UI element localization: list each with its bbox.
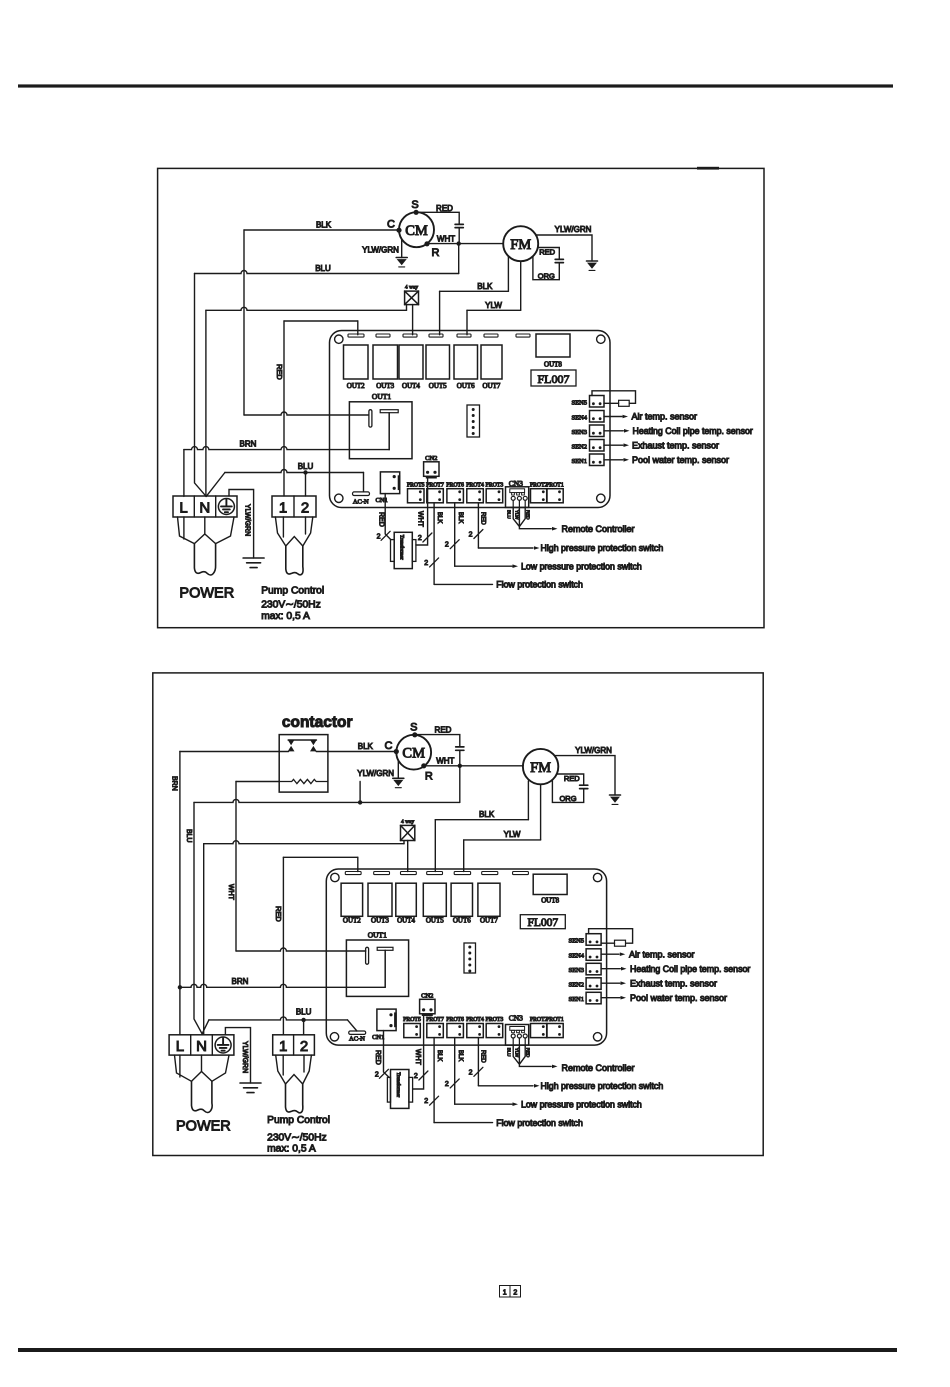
SEN5 jumper loop with resistor [592,391,636,404]
ground (CM) [396,257,407,259]
svg-text:Heating Coil pipe temp. sensor: Heating Coil pipe temp. sensor [630,964,750,974]
svg-text:contactor: contactor [282,714,353,731]
svg-text:BLK: BLK [436,512,442,523]
PCB FL007 board outline [330,331,611,508]
svg-text:PROT6: PROT6 [446,482,464,488]
svg-text:POWER: POWER [179,586,234,602]
board 2 top slot 3 [401,872,417,875]
connector CN2 [424,462,439,477]
svg-text:C: C [385,740,393,752]
svg-text:POWER: POWER [176,1119,231,1135]
relay OUT5 (diagram 2) [423,883,446,916]
contactor contact triangles [288,740,317,752]
wire N into cable 2 [201,1055,203,1071]
svg-text:BRN: BRN [170,776,177,791]
motor CM (compressor, diagram 2) [396,735,431,770]
connector SEN5 (2) [586,934,601,946]
relay OUT3 (diagram 2) [368,883,392,916]
svg-text:YLW: YLW [514,510,519,520]
wire BLK FM2 to OUT5 [527,781,529,820]
wire ORG FM2 [552,780,583,803]
wire YLW/GRN FM2 ground [555,756,616,795]
wire PROT6 low pressure switch 2 [454,1038,456,1105]
svg-text:BLK: BLK [358,742,374,751]
svg-text:PROT5: PROT5 [403,1017,421,1023]
wire SEN4 air temp sensor [604,416,622,418]
svg-text:CM: CM [405,223,428,239]
earth symbol in terminal 2 [215,1037,231,1053]
terminal block L N E 2 [169,1035,234,1055]
svg-text:YLW: YLW [504,830,521,839]
svg-text:RED: RED [479,1050,485,1063]
svg-text:PROT7: PROT7 [426,1017,444,1023]
svg-text:OUT5: OUT5 [429,382,447,390]
svg-text:YLW/GRN: YLW/GRN [357,769,394,778]
svg-text:RED: RED [525,510,530,520]
power cable funnel [178,517,235,544]
arrow to Remote Controller 2 [552,1065,558,1069]
svg-text:YLW: YLW [514,1048,519,1058]
board 2 top slot 1 [345,872,361,875]
PCB FL007 board outline 2 [326,869,606,1045]
connector SEN1 [590,454,605,466]
svg-text:230V∼/50Hz: 230V∼/50Hz [267,1133,327,1144]
svg-text:SEN1: SEN1 [571,458,587,465]
wire PROT7 flow switch 2 [433,1038,435,1123]
svg-text:R: R [425,770,433,782]
board 2 top slot 2 [374,872,390,875]
wire WHT from R to FM [427,243,503,245]
pump cable 2 [286,1084,303,1113]
svg-text:WHT: WHT [414,1049,421,1066]
wire 2 into cable [305,517,307,534]
svg-text:RED: RED [274,906,283,922]
svg-text:2: 2 [445,542,449,549]
svg-text:BLU: BLU [185,829,192,843]
wire RED CN1 to transformer 2 [384,1031,390,1078]
svg-text:OUT6: OUT6 [457,382,475,390]
svg-text:PROT3: PROT3 [486,1017,504,1023]
svg-text:YLW/GRN: YLW/GRN [241,1041,248,1073]
terminal R of CM [424,241,429,246]
svg-text:BLU: BLU [507,1048,512,1057]
relay OUT2 (diagram 2) [341,883,363,916]
wire 1 into cable [282,517,284,537]
svg-text:FL007: FL007 [527,917,558,929]
svg-text:R: R [432,247,440,259]
wire RED FM2 capacitor [557,774,584,785]
svg-text:Exhaust temp. sensor: Exhaust temp. sensor [632,440,719,450]
transformer T1 (2) [391,1070,409,1109]
connector SEN3 (2) [586,963,601,975]
svg-text:OUT8: OUT8 [544,361,562,369]
svg-text:L: L [176,1038,184,1055]
svg-text:BLU: BLU [296,1007,312,1016]
pump cable funnel 2 [276,1055,312,1084]
terminal R of CM2 [421,763,426,768]
connector SEN1 (2) [586,992,601,1004]
connector CN1 2 [377,1009,396,1031]
wire YLW FM to OUT6 [520,261,522,310]
wire N to valve [206,307,407,310]
wire YLW/GRN earth 2 [225,1028,250,1083]
svg-text:Low pressure protection switch: Low pressure protection switch [521,561,642,571]
relay OUT6 (diagram 2) [451,883,472,916]
wire WHT CN2 to transformer 2 [413,1014,424,1089]
wire CN3 remote cable 2 [513,1045,551,1066]
wire RED pump-control to OUT2 [283,321,285,496]
connector AC-N [353,492,370,496]
svg-text:2: 2 [377,534,381,541]
relay OUT7 (diagram 2) [478,883,500,916]
wire YLW/GRN earth [229,490,254,559]
terminal C of CM2 [394,749,399,754]
relay OUT5 [426,345,450,379]
connector SEN5 [590,396,605,408]
relay OUT4 (diagram 2) [396,883,417,916]
svg-text:SEN2: SEN2 [568,982,584,989]
connector CN5 5-pin [467,405,480,437]
relay OUT6 [454,345,478,379]
svg-text:YLW/GRN: YLW/GRN [555,225,592,234]
svg-text:FM: FM [510,237,531,253]
wire SEN3 heating coil sensor [604,430,623,432]
wire coil net to WHT node [194,799,460,802]
svg-text:CN2: CN2 [425,455,437,462]
contactor coil [236,781,279,783]
svg-text:N: N [199,500,210,517]
pump cable funnel [275,517,312,546]
terminal block L N E [173,496,237,517]
svg-text:CN1: CN1 [372,1034,384,1041]
wire RED pump to OUT2 (2) [282,857,284,1035]
junction WHT node [457,241,461,245]
connector SEN2 [590,440,605,452]
board top slot 4 [429,334,443,337]
svg-text:CN2: CN2 [421,992,433,999]
svg-text:BLK: BLK [436,1050,442,1061]
svg-text:230V∼/50Hz: 230V∼/50Hz [261,600,321,611]
connector SEN3 [590,425,605,437]
svg-text:Remote Controller: Remote Controller [562,524,635,534]
junction dot pump-2 [303,470,307,474]
terminal S of CM2 [412,732,417,737]
svg-text:Transformer: Transformer [399,535,404,560]
svg-text:SEN4: SEN4 [568,953,584,960]
svg-text:N: N [196,1038,207,1055]
svg-text:BLK: BLK [457,1050,463,1061]
wire YLW/GRN FM to ground [536,235,592,261]
svg-text:Low pressure protection switch: Low pressure protection switch [521,1099,642,1109]
mounting hole 2 top-right [593,873,601,881]
svg-text:max: 0,5 A: max: 0,5 A [267,1144,316,1155]
wire valve to OUT4 slot [412,305,414,335]
wire YLW/GRN CM2 ground [397,760,399,778]
power cable funnel 2 [175,1055,230,1081]
motor CM (compressor) [399,212,434,247]
resistor on SEN5 loop 2 [615,940,626,946]
wire BLU N to coil net [194,802,202,1033]
svg-text:High pressure protection switc: High pressure protection switch [541,1081,664,1091]
wire RED CN1 to transformer [385,494,391,540]
relay OUT1 box 2 [346,940,408,996]
board top slot 7 [516,334,530,337]
svg-text:OUT2: OUT2 [343,916,361,924]
svg-text:C: C [387,219,395,231]
capacitor C2 (FM2) [580,785,588,788]
svg-text:BLK: BLK [479,810,495,819]
svg-text:SEN2: SEN2 [571,443,587,450]
svg-text:OUT3: OUT3 [371,916,389,924]
OUT1-2 moving contact T [377,947,393,950]
board 2 top slot 6 [482,872,498,875]
junction dot pump-2 (2) [301,1018,305,1022]
relay OUT8 box [536,334,570,357]
svg-text:Flow protection switch: Flow protection switch [496,1118,583,1128]
mounting hole bottom-left [335,494,343,502]
valve 4-way (diagram 2) [401,825,415,840]
svg-text:OUT3: OUT3 [376,382,394,390]
wire SEN1 pool water sensor 2 [601,997,620,999]
svg-text:BLK: BLK [316,221,332,230]
svg-text:2: 2 [424,1098,428,1105]
wire L into cable [183,517,185,539]
mounting hole 2 bottom-left [330,1033,338,1041]
capacitor C1 (CM start cap) [455,224,463,227]
ground (FM) [587,260,598,262]
svg-text:RED: RED [564,774,580,783]
svg-text:PROT4: PROT4 [466,482,484,488]
svg-text:OUT7: OUT7 [483,382,501,390]
wire SEN2 exhaust sensor 2 [601,982,620,984]
svg-text:BLK: BLK [477,282,493,291]
svg-text:RED: RED [436,204,453,213]
wire PROT4 high pressure switch [477,503,479,548]
svg-text:max: 0,5 A: max: 0,5 A [261,611,310,622]
wire SEN1 pool water sensor [604,459,623,461]
svg-text:CM: CM [402,746,425,762]
svg-text:CN1: CN1 [376,497,388,504]
board top slot 1 [348,334,364,337]
arrow to Remote Controller [552,527,558,531]
svg-text:OUT1: OUT1 [372,392,391,401]
terminal block pump 1 2 (2) [273,1035,315,1055]
mounting hole top-left [335,335,343,343]
svg-text:ORG: ORG [538,271,555,280]
svg-text:SEN4: SEN4 [571,414,587,421]
resistor on SEN5 loop [619,400,630,406]
svg-text:YLW/GRN: YLW/GRN [575,746,612,755]
svg-text:CN3: CN3 [509,1014,523,1023]
wire ORG capacitor to FM [533,256,559,280]
transformer T1 [394,532,412,568]
OUT1-2 fixed contact bar [366,947,369,964]
board 2 top slot 5 [454,872,470,875]
svg-text:PROT1: PROT1 [546,482,564,488]
svg-text:Pool water temp. sensor: Pool water temp. sensor [632,455,729,465]
svg-text:WHT: WHT [416,511,423,528]
connector CN5 5-pin 2 [464,943,476,973]
wire BLU-N to AC-N 2 [202,1020,209,1034]
svg-text:RED: RED [374,1050,381,1065]
svg-text:2: 2 [414,1073,418,1080]
svg-text:OUT8: OUT8 [541,896,559,904]
svg-text:RED: RED [479,512,485,525]
svg-text:1: 1 [279,500,287,517]
connector SEN4 [590,411,605,423]
svg-text:Air temp. sensor: Air temp. sensor [632,412,698,422]
svg-text:FL007: FL007 [537,372,569,386]
connector CN1 [380,472,399,494]
svg-text:RED: RED [377,512,384,527]
relay OUT2 [344,345,369,379]
svg-text:SEN5: SEN5 [571,399,587,406]
mounting hole 2 top-left [331,873,339,881]
wire PROT4 high pressure switch 2 [477,1038,479,1086]
contactor K1 box [279,735,328,793]
svg-text:PROT4: PROT4 [466,1017,484,1023]
wire N into cable [204,517,206,534]
SEN5 jumper loop with resistor 2 [589,929,633,944]
wire capacitor to WHT node [458,228,460,244]
svg-text:BRN: BRN [232,977,249,986]
wire valve2 to OUT4 slot [407,841,409,872]
svg-text:RED: RED [275,364,284,380]
svg-text:YLW: YLW [485,301,502,310]
wire RED from S to capacitor [416,212,459,224]
capacitor C2 (FM cap) [555,259,563,262]
page top rule [18,84,893,87]
svg-text:2: 2 [375,1071,379,1078]
svg-text:4 way: 4 way [401,819,415,825]
junction WHT node 2 [458,764,462,768]
svg-text:BLU: BLU [315,264,331,273]
svg-text:Pump Control: Pump Control [267,1115,330,1126]
capacitor C1 (CM2) [456,747,464,750]
diagram 1 frame [158,168,764,627]
junction coil-right [358,800,362,804]
svg-text:YLW/GRN: YLW/GRN [244,504,251,536]
wire 2 into cable 2 [303,1055,305,1072]
svg-text:OUT4: OUT4 [397,916,415,924]
wire L into cable 2 [179,1055,181,1077]
svg-text:2: 2 [301,500,309,517]
svg-text:2: 2 [513,1290,517,1297]
power cable [194,544,215,575]
wire RED S to capacitor 2 [415,735,460,747]
board top slot 5 [457,334,471,337]
motor FM (fan) [503,226,538,261]
relay OUT3 [373,345,398,379]
board 2 top slot 4 [427,872,443,875]
wire 1 into cable 2 [282,1055,284,1075]
terminal C of CM [396,228,401,233]
wire BLK from relay line to C [243,230,245,415]
page marker box 1 [500,1286,511,1298]
wire N to valve2 [204,841,404,844]
board top slot 6 [484,334,498,337]
svg-text:AC-N: AC-N [353,498,369,505]
mounting hole bottom-right [597,494,605,502]
svg-text:SEN5: SEN5 [568,938,584,945]
svg-text:2: 2 [424,560,428,567]
relay OUT7 [481,345,502,379]
junction L-BRN [178,985,182,989]
wire BLU neutral top [195,271,459,274]
svg-text:S: S [410,722,417,734]
terminal S of CM [414,210,419,215]
wire BLU-N to AC-N [206,473,225,497]
svg-text:BLU: BLU [507,510,512,519]
mounting hole top-right [597,335,605,343]
svg-text:High pressure protection switc: High pressure protection switch [541,543,664,553]
board top slot 3 [403,334,417,337]
svg-text:AC-N: AC-N [349,1035,365,1042]
svg-text:BLU: BLU [298,462,314,471]
wire SEN2 exhaust sensor [604,444,623,446]
svg-text:PROT1: PROT1 [546,1017,564,1023]
wire CN3 remote cable [513,507,551,528]
connector SEN4 (2) [586,949,601,961]
svg-text:Heating Coil pipe temp. sensor: Heating Coil pipe temp. sensor [633,426,753,436]
svg-text:WHT: WHT [227,884,234,901]
svg-text:Air temp. sensor: Air temp. sensor [629,949,695,959]
svg-text:4 way: 4 way [405,284,419,290]
wire WHT coil-left to OUT1 [235,782,237,952]
svg-text:Exhaust temp. sensor: Exhaust temp. sensor [630,978,717,988]
wire WHT R to FM2 [424,765,523,767]
svg-text:Transformer: Transformer [395,1072,400,1097]
svg-text:OUT2: OUT2 [347,382,365,390]
label FL007 [531,370,576,386]
relay OUT1 box [349,402,412,459]
svg-text:FM: FM [530,760,551,776]
svg-text:Pool water temp. sensor: Pool water temp. sensor [630,993,727,1003]
svg-text:RED: RED [435,725,452,734]
wire YLW FM2 to OUT6 [540,784,542,840]
power cable 2 [192,1081,213,1112]
svg-text:OUT4: OUT4 [402,382,420,390]
wire BRN 2 [180,984,385,987]
contactor bridge bar [288,739,316,741]
svg-text:1: 1 [279,1038,287,1055]
wire BLK L to contactor to C [180,751,289,753]
svg-text:BRN: BRN [240,439,257,448]
svg-text:YLW/GRN: YLW/GRN [362,246,399,255]
relay OUT4 [399,345,423,379]
wire BLK FM to OUT5 [507,256,509,291]
svg-text:OUT5: OUT5 [426,916,444,924]
wire YLW/GRN CM to ground [401,239,403,258]
svg-text:PROT6: PROT6 [446,1017,464,1023]
OUT1 moving contact T [380,410,398,413]
svg-text:1: 1 [503,1290,507,1297]
wire PROT7 flow switch [433,503,435,585]
mounting hole 2 bottom-right [593,1033,601,1041]
svg-text:2: 2 [469,1069,473,1076]
svg-text:SEN1: SEN1 [568,996,584,1003]
wire SEN4 air temp sensor 2 [601,953,619,955]
svg-text:PROT5: PROT5 [407,482,425,488]
svg-text:OUT1: OUT1 [368,930,387,939]
wire PROT6 low pressure switch [454,503,456,566]
relay OUT8 box 2 [533,874,567,894]
svg-text:2: 2 [418,535,422,542]
svg-text:PROT3: PROT3 [486,482,504,488]
motor FM (fan, diagram 2) [523,749,558,784]
svg-text:2: 2 [445,1081,449,1088]
page bottom rule [18,1348,897,1352]
